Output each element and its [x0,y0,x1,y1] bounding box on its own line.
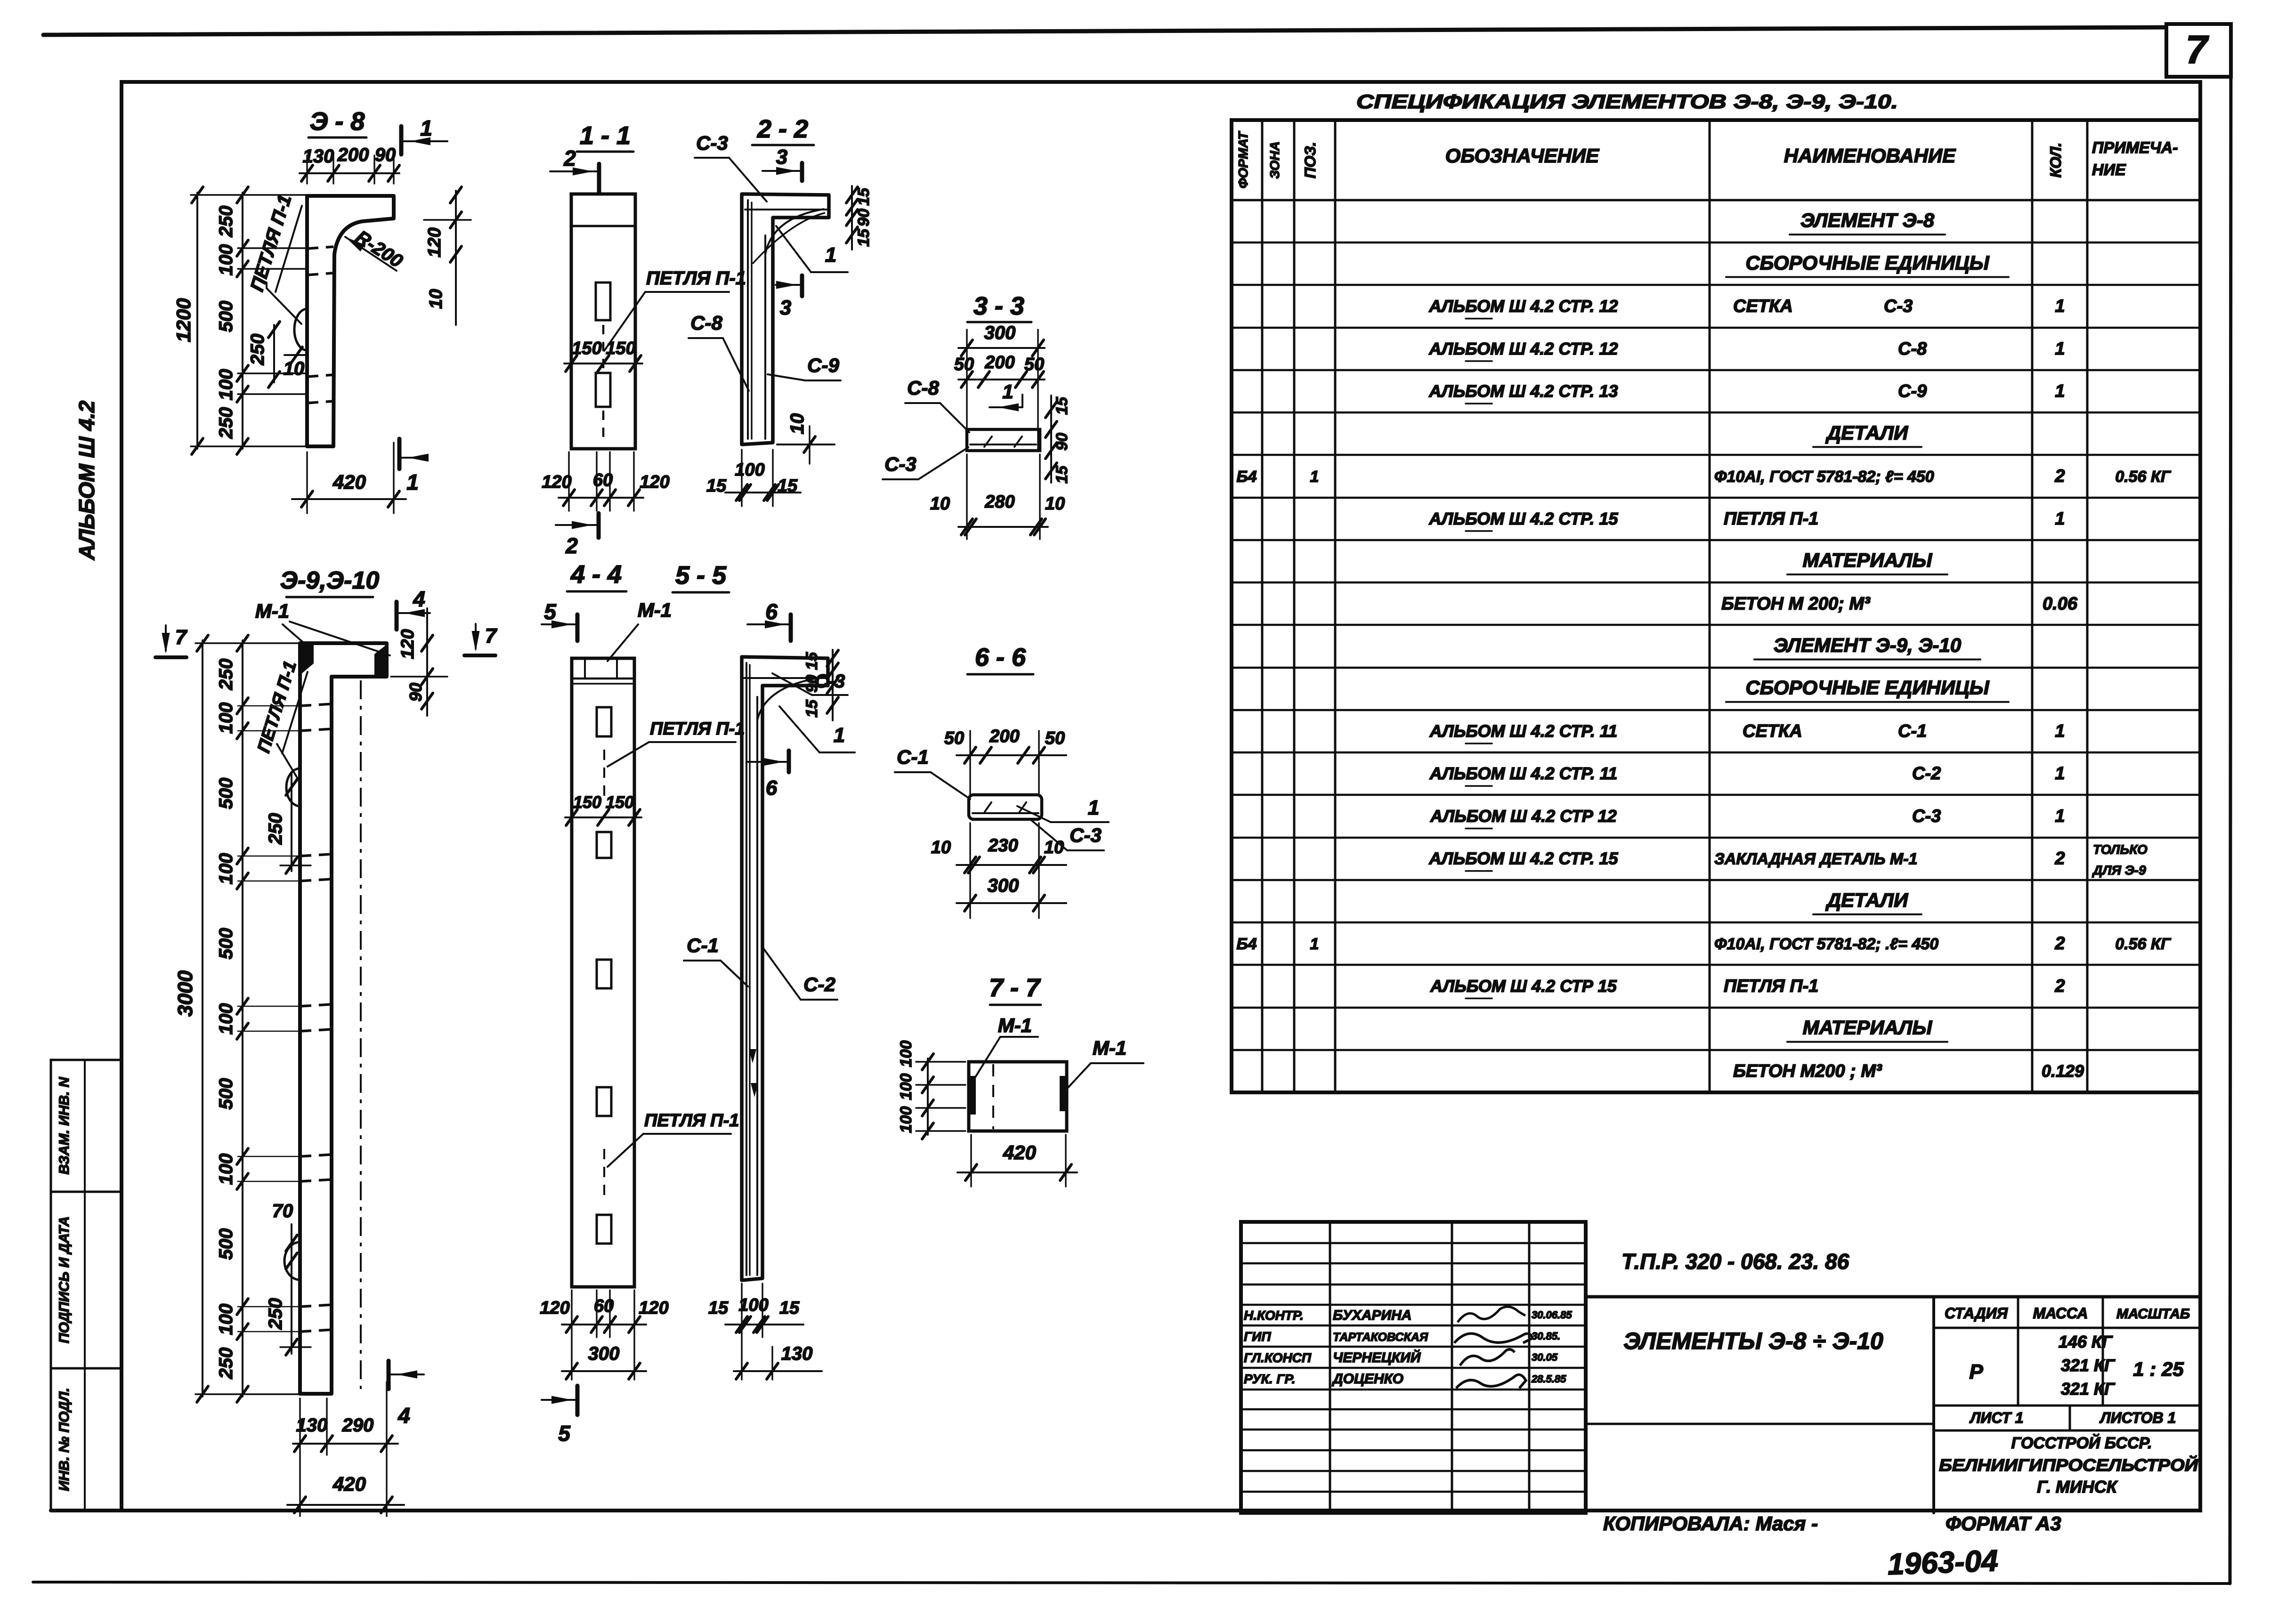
section 3-3 title [967,292,1031,322]
sheet bottom edge line [33,1582,2230,1584]
svg-text:100: 100 [216,703,236,734]
svg-text:ПЕТЛЯ П-1: ПЕТЛЯ П-1 [650,719,745,739]
svg-text:90: 90 [406,683,425,702]
svg-text:90: 90 [1053,433,1071,451]
svg-text:120: 120 [542,472,571,492]
svg-text:250: 250 [216,659,236,691]
svg-text:ДЕТАЛИ: ДЕТАЛИ [1825,421,1908,444]
svg-text:М-1: М-1 [255,600,289,622]
svg-text:10: 10 [931,838,951,857]
svg-text:СБОРОЧНЫЕ ЕДИНИЦЫ: СБОРОЧНЫЕ ЕДИНИЦЫ [1745,677,1989,699]
svg-text:БЕТОН М 200; М³: БЕТОН М 200; М³ [1721,594,1871,614]
svg-text:ПЕТЛЯ П-1: ПЕТЛЯ П-1 [1724,976,1818,996]
svg-text:С-3: С-3 [884,453,916,475]
svg-text:100: 100 [735,460,764,480]
section mark 1 bottom [399,439,429,494]
view Э-9,Э-10 title [280,567,380,597]
svg-text:МАСШТАБ: МАСШТАБ [2116,1306,2190,1322]
dimension 150,150 (1-1) [564,339,642,372]
dimension chain 250/100/500/100/250 (Э-8) [216,187,305,454]
svg-text:130: 130 [296,1415,328,1436]
svg-text:СТАДИЯ: СТАДИЯ [1945,1305,2008,1322]
dimension 10 (2-2 bottom) [777,413,835,464]
section 7-7 title [989,974,1041,1005]
svg-text:2 - 2: 2 - 2 [757,115,808,143]
label С-3 (2-2) [695,132,767,202]
svg-text:1200: 1200 [172,298,195,342]
svg-text:500: 500 [216,1078,236,1110]
svg-text:250: 250 [216,206,236,238]
svg-text:АЛЬБОМ Ш 4.2 СТР 15: АЛЬБОМ Ш 4.2 СТР 15 [1430,976,1617,995]
dimension 50,200,50 (3-3) [954,330,1045,450]
svg-text:250: 250 [265,1298,286,1330]
svg-text:250: 250 [216,407,236,439]
label М-1 first (7-7) [973,1014,1038,1080]
svg-text:С-2: С-2 [803,973,835,995]
section mark 2 bottom [556,513,599,558]
sheet right edge line [2230,24,2231,1584]
svg-text:100: 100 [216,1003,236,1035]
svg-text:6 - 6: 6 - 6 [975,643,1026,671]
svg-text:15: 15 [855,187,873,206]
label С-1 (6-6) [895,746,970,799]
svg-text:100: 100 [216,1154,236,1185]
dimension 15/90/15 right of 2-2 [846,186,873,250]
svg-text:М-1: М-1 [638,599,672,621]
svg-text:ПОЗ.: ПОЗ. [1302,142,1319,178]
svg-text:420: 420 [1003,1141,1036,1163]
label ПЕТЛЯ П-1 (1-1) [604,268,746,351]
dimension 120/90 right of Э-9 flange [391,608,447,716]
svg-text:СЕТКА: СЕТКА [1733,297,1793,316]
svg-text:ЗОНА: ЗОНА [1267,141,1282,179]
element Э-9 outline [300,643,387,1394]
svg-text:130: 130 [303,146,334,167]
svg-text:120: 120 [540,1298,569,1318]
svg-text:321 КГ: 321 КГ [2061,1379,2116,1398]
svg-text:10: 10 [1044,838,1064,857]
label С-9 (2-2) [768,354,841,380]
label М-1 (Э-9) with leaders [255,600,390,655]
svg-text:15: 15 [855,228,873,247]
annotation КОПИРОВАЛА [1603,1512,1818,1535]
svg-text:100: 100 [738,1295,768,1315]
svg-text:280: 280 [984,492,1014,512]
dimension 10 loop (Э-8) [284,347,307,379]
left column box ПОДПИСЬ И ДАТА [51,1192,122,1368]
svg-text:1: 1 [2055,381,2065,401]
svg-text:ЛИСТ 1: ЛИСТ 1 [1969,1409,2023,1426]
svg-text:С-3: С-3 [1912,806,1941,826]
svg-text:БЕЛНИИГИПРОСЕЛЬСТРОЙ: БЕЛНИИГИПРОСЕЛЬСТРОЙ [1939,1455,2198,1475]
label М-1 (4-4) [608,599,672,661]
label С-2 (5-5) [762,946,837,1000]
section 2-2 body [742,194,829,444]
svg-text:ГЛ.КОНСП: ГЛ.КОНСП [1244,1350,1312,1365]
specification table title [1356,90,1898,113]
svg-text:50: 50 [944,728,964,748]
section 3-3 body [967,429,1040,451]
svg-text:ПРИМЕЧА-: ПРИМЕЧА- [2092,139,2178,157]
specification table header texts [1236,130,2178,188]
dimension 130,200,90 top of Э-8 [300,145,399,184]
dimension 250 upper loop (Э-9) [265,772,311,873]
left column box ВЗАМ.ИНВ.N [51,1060,122,1192]
svg-text:90: 90 [855,209,873,226]
left column box ИНВ.№ ПОДЛ. [51,1368,122,1511]
svg-text:СЕТКА: СЕТКА [1743,721,1802,741]
svg-text:0.56 КГ: 0.56 КГ [2115,935,2172,953]
svg-text:15: 15 [706,476,727,496]
mark 1 (3-3) [989,380,1022,412]
view Э-8 title [308,107,366,137]
section mark 5 bottom [542,1386,577,1446]
title block signature texts [1244,1308,1572,1387]
svg-text:15: 15 [803,652,821,670]
svg-text:ЭЛЕМЕНТЫ Э-8 ÷ Э-10: ЭЛЕМЕНТЫ Э-8 ÷ Э-10 [1623,1328,1883,1354]
svg-text:1963-04: 1963-04 [1887,1543,1999,1581]
svg-text:30.06.85: 30.06.85 [1532,1309,1572,1321]
svg-text:АЛЬБОМ Ш 4.2: АЛЬБОМ Ш 4.2 [74,400,99,560]
svg-text:Э-9,Э-10: Э-9,Э-10 [280,567,380,594]
svg-text:10: 10 [930,494,950,514]
svg-text:15: 15 [779,1298,800,1318]
svg-text:60: 60 [593,470,613,490]
dimension chain (Э-9) [216,635,301,1402]
svg-text:1: 1 [2055,297,2065,316]
svg-text:1: 1 [834,724,845,747]
Э-9 lifting loops [284,768,300,1280]
svg-text:Р: Р [1969,1360,1983,1383]
label С-8 (2-2) [689,312,749,391]
svg-text:100: 100 [897,1074,915,1100]
svg-text:Н.КОНТР.: Н.КОНТР. [1244,1308,1304,1323]
svg-text:200: 200 [989,727,1019,746]
svg-text:С-8: С-8 [690,312,722,334]
svg-text:НИЕ: НИЕ [2092,161,2126,179]
svg-text:ДЕТАЛИ: ДЕТАЛИ [1825,889,1908,911]
dimension 420 bottom of Э-8 [292,443,406,513]
svg-text:АЛЬБОМ Ш 4.2 СТР 12: АЛЬБОМ Ш 4.2 СТР 12 [1430,806,1617,825]
svg-text:М-1: М-1 [998,1014,1032,1036]
section 5-5 title [673,561,729,592]
svg-text:ПЕТЛЯ П-1: ПЕТЛЯ П-1 [644,1111,739,1131]
section 2-2 title [752,115,814,145]
svg-text:50: 50 [1024,355,1044,374]
svg-text:100: 100 [216,853,236,885]
section mark 6 top [747,599,791,641]
svg-text:РУК. ГР.: РУК. ГР. [1244,1372,1295,1386]
label ПЕТЛЯ П-1 (Э-8) [247,192,302,324]
svg-text:М-1: М-1 [1093,1037,1127,1059]
svg-text:АЛЬБОМ Ш 4.2 СТР. 15: АЛЬБОМ Ш 4.2 СТР. 15 [1428,509,1618,528]
svg-text:СПЕЦИФИКАЦИЯ ЭЛЕМЕНТОВ Э-8,: СПЕЦИФИКАЦИЯ ЭЛЕМЕНТОВ Э-8, Э-9, Э-10. [1356,90,1898,113]
svg-text:4: 4 [413,587,425,611]
svg-text:150: 150 [573,792,601,812]
svg-text:60: 60 [594,1296,614,1316]
label С-3 (3-3) [883,447,968,479]
svg-text:15: 15 [1053,465,1071,484]
svg-text:3000: 3000 [174,970,197,1017]
svg-text:1: 1 [2055,509,2065,529]
signatures [1454,1307,1532,1388]
svg-text:АЛЬБОМ Ш 4.2 СТР. 11: АЛЬБОМ Ш 4.2 СТР. 11 [1429,764,1617,783]
dimension 150,150 (4-4) [565,792,641,825]
labels ПЕТЛЯ П-1 (4-4) [608,719,745,1167]
svg-text:АЛЬБОМ Ш 4.2 СТР. 12: АЛЬБОМ Ш 4.2 СТР. 12 [1428,297,1618,316]
section mark 3 top [762,145,802,181]
svg-text:ОБОЗНАЧЕНИЕ: ОБОЗНАЧЕНИЕ [1445,145,1600,167]
svg-text:Э - 8: Э - 8 [310,107,365,136]
Э-8 lifting loop [294,309,307,350]
svg-text:250: 250 [247,334,268,366]
svg-text:90: 90 [375,145,396,165]
svg-text:230: 230 [988,836,1018,856]
dimension 300 (3-3 top) [958,323,1045,356]
svg-text:ДЛЯ Э-9: ДЛЯ Э-9 [2092,863,2146,878]
label ПЕТЛЯ П-1 (Э-9) [254,659,308,782]
svg-text:Б4: Б4 [1237,468,1257,486]
specification table grid [1232,120,2200,1092]
section 4-4 holes [597,707,611,1244]
dimension 50,200,50 (6-6) [944,727,1066,795]
svg-text:2: 2 [2054,934,2065,953]
svg-text:ЧЕРНЕЦКИЙ: ЧЕРНЕЦКИЙ [1333,1349,1421,1365]
svg-text:2: 2 [2054,976,2065,996]
svg-text:15: 15 [708,1298,729,1318]
section 4-4 title [567,560,626,591]
annotation ФОРМАТ А3 [1946,1512,2061,1535]
svg-text:300: 300 [588,1343,620,1364]
svg-text:1: 1 [2055,806,2065,826]
svg-text:С-3: С-3 [1884,297,1913,316]
svg-text:ТАРТАКОВСКАЯ: ТАРТАКОВСКАЯ [1333,1331,1428,1344]
section 1-1 centerline dashes [602,325,605,440]
svg-text:420: 420 [332,471,366,493]
title block signature table grid [1241,1222,1586,1513]
svg-text:500: 500 [216,1228,236,1260]
svg-text:100: 100 [216,1304,236,1335]
svg-text:5: 5 [544,599,557,624]
dimension 10,230,10 + 300 (6-6) [931,823,1066,918]
svg-text:1: 1 [825,243,836,267]
svg-text:100: 100 [897,1107,915,1133]
section mark 2 top [550,146,599,192]
section mark 6 lower [747,751,789,800]
dimension 10/120 right of Э-8 flange [398,187,471,325]
dimension 420 bottom of Э-9 [287,1473,404,1513]
section 4-4 centreline dashes [603,750,605,1198]
svg-text:1: 1 [2055,764,2065,784]
dimension 420 (7-7) [957,1135,1077,1187]
svg-text:ЗАКЛАДНАЯ ДЕТАЛЬ М-1: ЗАКЛАДНАЯ ДЕТАЛЬ М-1 [1714,850,1917,868]
section 1-1 holes [596,283,610,407]
svg-text:ЭЛЕМЕНТ Э-9, Э-10: ЭЛЕМЕНТ Э-9, Э-10 [1774,634,1961,656]
dimension 10,280,10 (3-3) [930,454,1065,539]
section 4-4 body [572,658,634,1287]
svg-text:28.5.85: 28.5.85 [1531,1373,1566,1385]
svg-text:С-1: С-1 [1898,721,1927,741]
svg-text:2: 2 [2054,849,2065,869]
element Э-8 outline [307,196,394,446]
svg-text:Ф10АI, ГОСТ 5781-82; .ℓ= 450: Ф10АI, ГОСТ 5781-82; .ℓ= 450 [1714,935,1938,953]
section mark 7 left [155,625,188,657]
svg-text:0.56 КГ: 0.56 КГ [2115,468,2172,486]
dimension 15,100,15 + 130 (5-5) [708,1284,822,1380]
svg-text:ГИП: ГИП [1244,1329,1271,1344]
svg-text:30.85.: 30.85. [1532,1330,1560,1342]
svg-text:5: 5 [558,1421,571,1446]
section 5-5 reinforcement [744,663,825,1275]
svg-text:4: 4 [397,1403,410,1428]
svg-text:321 КГ: 321 КГ [2061,1356,2116,1375]
svg-text:С-8: С-8 [907,377,939,399]
svg-text:1 - 1: 1 - 1 [580,121,631,150]
section mark 4 bottom [389,1361,424,1428]
label М-1 second (7-7) [1065,1037,1143,1091]
svg-text:МАТЕРИАЛЫ: МАТЕРИАЛЫ [1803,549,1933,571]
dimension 3000 (Э-9 overall) [174,635,301,1402]
Э-9 centre dash-dot line [360,680,362,1389]
section 7-7 body [969,1062,1067,1131]
svg-text:90: 90 [803,675,821,693]
svg-text:100: 100 [897,1041,915,1067]
svg-text:300: 300 [984,323,1016,343]
dimension 130,290 bottom of Э-9 [293,1382,398,1516]
svg-text:250: 250 [216,1348,236,1380]
svg-text:3: 3 [780,296,791,319]
svg-text:70: 70 [272,1201,293,1221]
dimension 1200 (Э-8 overall) [172,187,308,454]
svg-text:150: 150 [606,339,635,358]
svg-text:ПЕТЛЯ П-1: ПЕТЛЯ П-1 [646,268,746,289]
svg-text:С-1: С-1 [897,746,929,768]
svg-text:АЛЬБОМ Ш 4.2 СТР. 15: АЛЬБОМ Ш 4.2 СТР. 15 [1428,849,1618,868]
section mark 5 top [542,599,577,641]
section mark 1 top [401,116,447,154]
svg-text:ЛИСТОВ 1: ЛИСТОВ 1 [2100,1409,2176,1426]
section 1-1 title [577,121,633,152]
svg-text:250: 250 [265,813,286,845]
svg-text:15: 15 [1053,396,1071,415]
svg-text:БЕТОН М200 ; М³: БЕТОН М200 ; М³ [1733,1061,1882,1081]
svg-text:ЭЛЕМЕНТ Э-8: ЭЛЕМЕНТ Э-8 [1800,209,1935,231]
svg-text:500: 500 [216,778,236,809]
svg-text:146 КГ: 146 КГ [2059,1332,2113,1351]
svg-text:15: 15 [803,699,821,718]
dimension 120,60,120 (1-1) [542,452,669,511]
svg-text:50: 50 [1045,728,1065,748]
svg-text:1 : 25: 1 : 25 [2133,1358,2184,1380]
Э-8 hidden dash lines [307,247,333,403]
svg-text:0.06: 0.06 [2043,594,2078,614]
svg-text:С-2: С-2 [1912,764,1941,784]
svg-text:КОПИРОВАЛА: Мася -: КОПИРОВАЛА: Мася - [1603,1512,1818,1535]
svg-text:С-3: С-3 [1070,824,1102,846]
svg-text:4 - 4: 4 - 4 [570,560,622,589]
label 1 (5-5) [779,706,855,752]
svg-text:НАИМЕНОВАНИЕ: НАИМЕНОВАНИЕ [1784,145,1956,167]
section 1-1 body [571,194,635,449]
svg-text:1: 1 [420,116,432,140]
specification table row texts [1237,209,2172,1081]
dimension 70/250 lower loop (Э-9) [265,1201,311,1355]
label R-200 with leader [343,226,406,272]
svg-text:50: 50 [954,355,974,374]
handwritten number 1963-04 [1887,1543,1999,1581]
svg-text:130: 130 [781,1343,813,1364]
svg-text:7 - 7: 7 - 7 [989,974,1041,1002]
label 1 with leader (2-2) [776,226,848,272]
svg-text:6: 6 [765,599,778,624]
svg-text:0.129: 0.129 [2042,1061,2084,1081]
svg-text:2: 2 [565,533,578,558]
svg-text:300: 300 [988,875,1019,896]
svg-text:Т.П.Р. 320 - 068. 23. 86: Т.П.Р. 320 - 068. 23. 86 [1621,1249,1849,1274]
dimension 15/90/15 right of 3-3 [1046,396,1071,484]
section mark 4 top [397,587,430,630]
svg-text:АЛЬБОМ Ш 4.2 СТР. 11: АЛЬБОМ Ш 4.2 СТР. 11 [1429,721,1617,741]
svg-text:7: 7 [485,624,498,647]
svg-text:120: 120 [639,1298,668,1318]
svg-text:ГОССТРОЙ БССР.: ГОССТРОЙ БССР. [2011,1434,2152,1452]
svg-text:ФОРМАТ: ФОРМАТ [1236,130,1250,188]
label С-1 (5-5) [684,934,748,986]
svg-text:1: 1 [2055,339,2065,359]
section 6-6 body [969,795,1042,819]
svg-text:АЛЬБОМ Ш 4.2 СТР. 13: АЛЬБОМ Ш 4.2 СТР. 13 [1428,381,1618,401]
svg-text:15: 15 [778,476,798,496]
svg-text:ПЕТЛЯ П-1: ПЕТЛЯ П-1 [1724,509,1818,529]
dimension 120,60,120 + 300 (4-4) [540,1290,668,1380]
sheet top edge line [43,27,2165,35]
section 6-6 title [967,643,1033,674]
svg-text:ИНВ. № ПОДЛ.: ИНВ. № ПОДЛ. [57,1388,72,1491]
svg-text:200: 200 [337,145,369,165]
svg-text:МАТЕРИАЛЫ: МАТЕРИАЛЫ [1803,1017,1933,1039]
svg-text:120: 120 [398,629,418,659]
dimension 250 loop (Э-8) [247,322,280,388]
svg-text:1: 1 [1002,380,1013,403]
svg-text:10: 10 [426,289,446,309]
svg-text:СБОРОЧНЫЕ ЕДИНИЦЫ: СБОРОЧНЫЕ ЕДИНИЦЫ [1745,251,1989,274]
svg-text:С-9: С-9 [807,354,839,376]
svg-text:1: 1 [1088,796,1099,819]
svg-text:7: 7 [2186,27,2209,72]
svg-text:150: 150 [572,339,601,358]
svg-text:100: 100 [216,369,236,401]
svg-text:Б4: Б4 [1237,935,1257,953]
svg-text:С-3: С-3 [696,132,728,154]
label С-8 (3-3) [905,377,969,432]
svg-text:7: 7 [175,626,188,649]
svg-text:120: 120 [640,472,669,492]
svg-text:1: 1 [406,470,419,494]
svg-text:С-9: С-9 [1898,381,1927,401]
svg-text:10: 10 [1045,494,1065,514]
svg-text:ТОЛЬКО: ТОЛЬКО [2093,842,2148,857]
svg-text:2: 2 [2054,467,2065,486]
svg-text:3: 3 [776,145,787,169]
svg-text:С-8: С-8 [1898,339,1927,359]
svg-text:10: 10 [284,358,305,379]
svg-text:5 - 5: 5 - 5 [675,561,727,590]
svg-text:Ф10АI, ГОСТ 5781-82; ℓ= 450: Ф10АI, ГОСТ 5781-82; ℓ= 450 [1714,468,1934,486]
svg-text:АЛЬБОМ Ш 4.2 СТР. 12: АЛЬБОМ Ш 4.2 СТР. 12 [1428,339,1618,358]
sheet number box [2166,24,2231,77]
svg-text:1: 1 [1310,468,1319,486]
svg-text:1: 1 [2055,721,2065,741]
